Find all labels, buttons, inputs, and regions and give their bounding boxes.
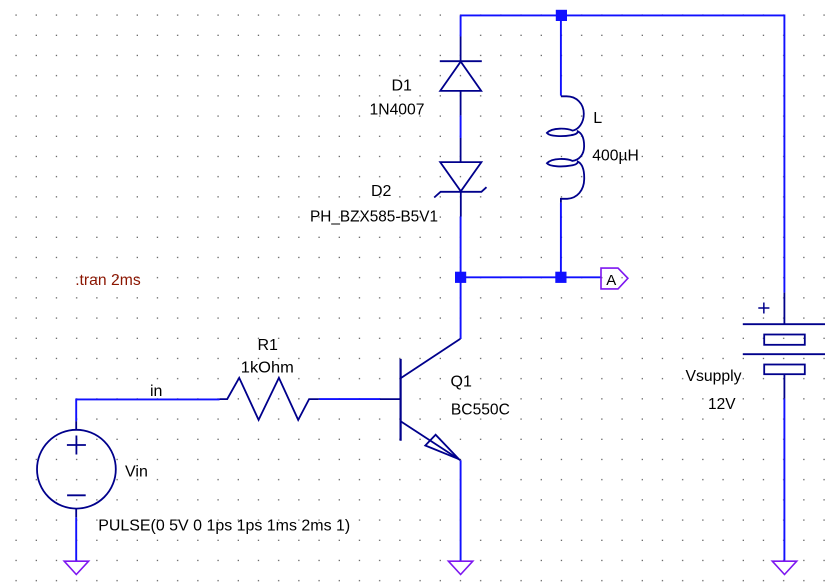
ground at Vin xyxy=(64,561,88,574)
svg-text:Vsupply: Vsupply xyxy=(686,368,742,385)
junction node A left xyxy=(455,272,466,283)
zener diode D2 xyxy=(434,138,486,217)
svg-text:BC550C: BC550C xyxy=(451,402,510,419)
svg-text:1kOhm: 1kOhm xyxy=(241,360,294,377)
junction node A right xyxy=(555,272,566,283)
transistor Q1 xyxy=(380,339,460,461)
svg-text:D2: D2 xyxy=(371,183,392,200)
svg-text:in: in xyxy=(150,383,162,400)
svg-text:PH_BZX585-B5V1: PH_BZX585-B5V1 xyxy=(310,208,438,225)
junction top at inductor xyxy=(556,10,567,21)
svg-text:D1: D1 xyxy=(392,78,413,95)
wire node row horizontal to flag A xyxy=(460,276,601,278)
wire right vertical to Vsupply xyxy=(783,15,785,293)
wire top to D1 xyxy=(460,15,462,36)
svg-text:1N4007: 1N4007 xyxy=(370,102,425,119)
wire D1 to D2 xyxy=(460,115,462,138)
svg-text:PULSE(0 5V 0 1ps 1ps 1ms 2ms 1: PULSE(0 5V 0 1ps 1ps 1ms 2ms 1) xyxy=(98,517,350,534)
node flag A outline xyxy=(601,268,628,289)
diode D1 xyxy=(440,37,482,116)
resistor R1 xyxy=(220,378,319,420)
svg-text:L: L xyxy=(593,110,602,127)
voltage source Vin xyxy=(37,421,116,517)
wire Q1 emitter to ground xyxy=(460,460,462,561)
svg-text:12V: 12V xyxy=(708,396,736,413)
battery Vsupply xyxy=(743,293,825,399)
wire Vsupply bottom to ground xyxy=(783,399,785,561)
wire Vin top to resistor xyxy=(76,399,219,421)
svg-text:400µH: 400µH xyxy=(592,147,639,164)
svg-text:R1: R1 xyxy=(258,337,279,354)
inductor L xyxy=(547,96,584,203)
wire D2 to node A row and Q1 collector xyxy=(460,217,462,340)
wire inductor bottom to node row xyxy=(560,203,562,277)
svg-text:Vin: Vin xyxy=(125,463,148,480)
svg-text:A: A xyxy=(606,272,616,289)
wire Vin bottom to ground xyxy=(75,517,77,561)
ground at Vsupply xyxy=(772,561,796,574)
svg-text:.tran 2ms: .tran 2ms xyxy=(75,272,141,289)
wire top junction to inductor xyxy=(560,15,562,96)
wire resistor to Q1 base xyxy=(319,398,380,400)
svg-text:Q1: Q1 xyxy=(451,374,472,391)
ground at Q1 emitter xyxy=(448,561,472,574)
wire top horizontal xyxy=(460,14,784,16)
